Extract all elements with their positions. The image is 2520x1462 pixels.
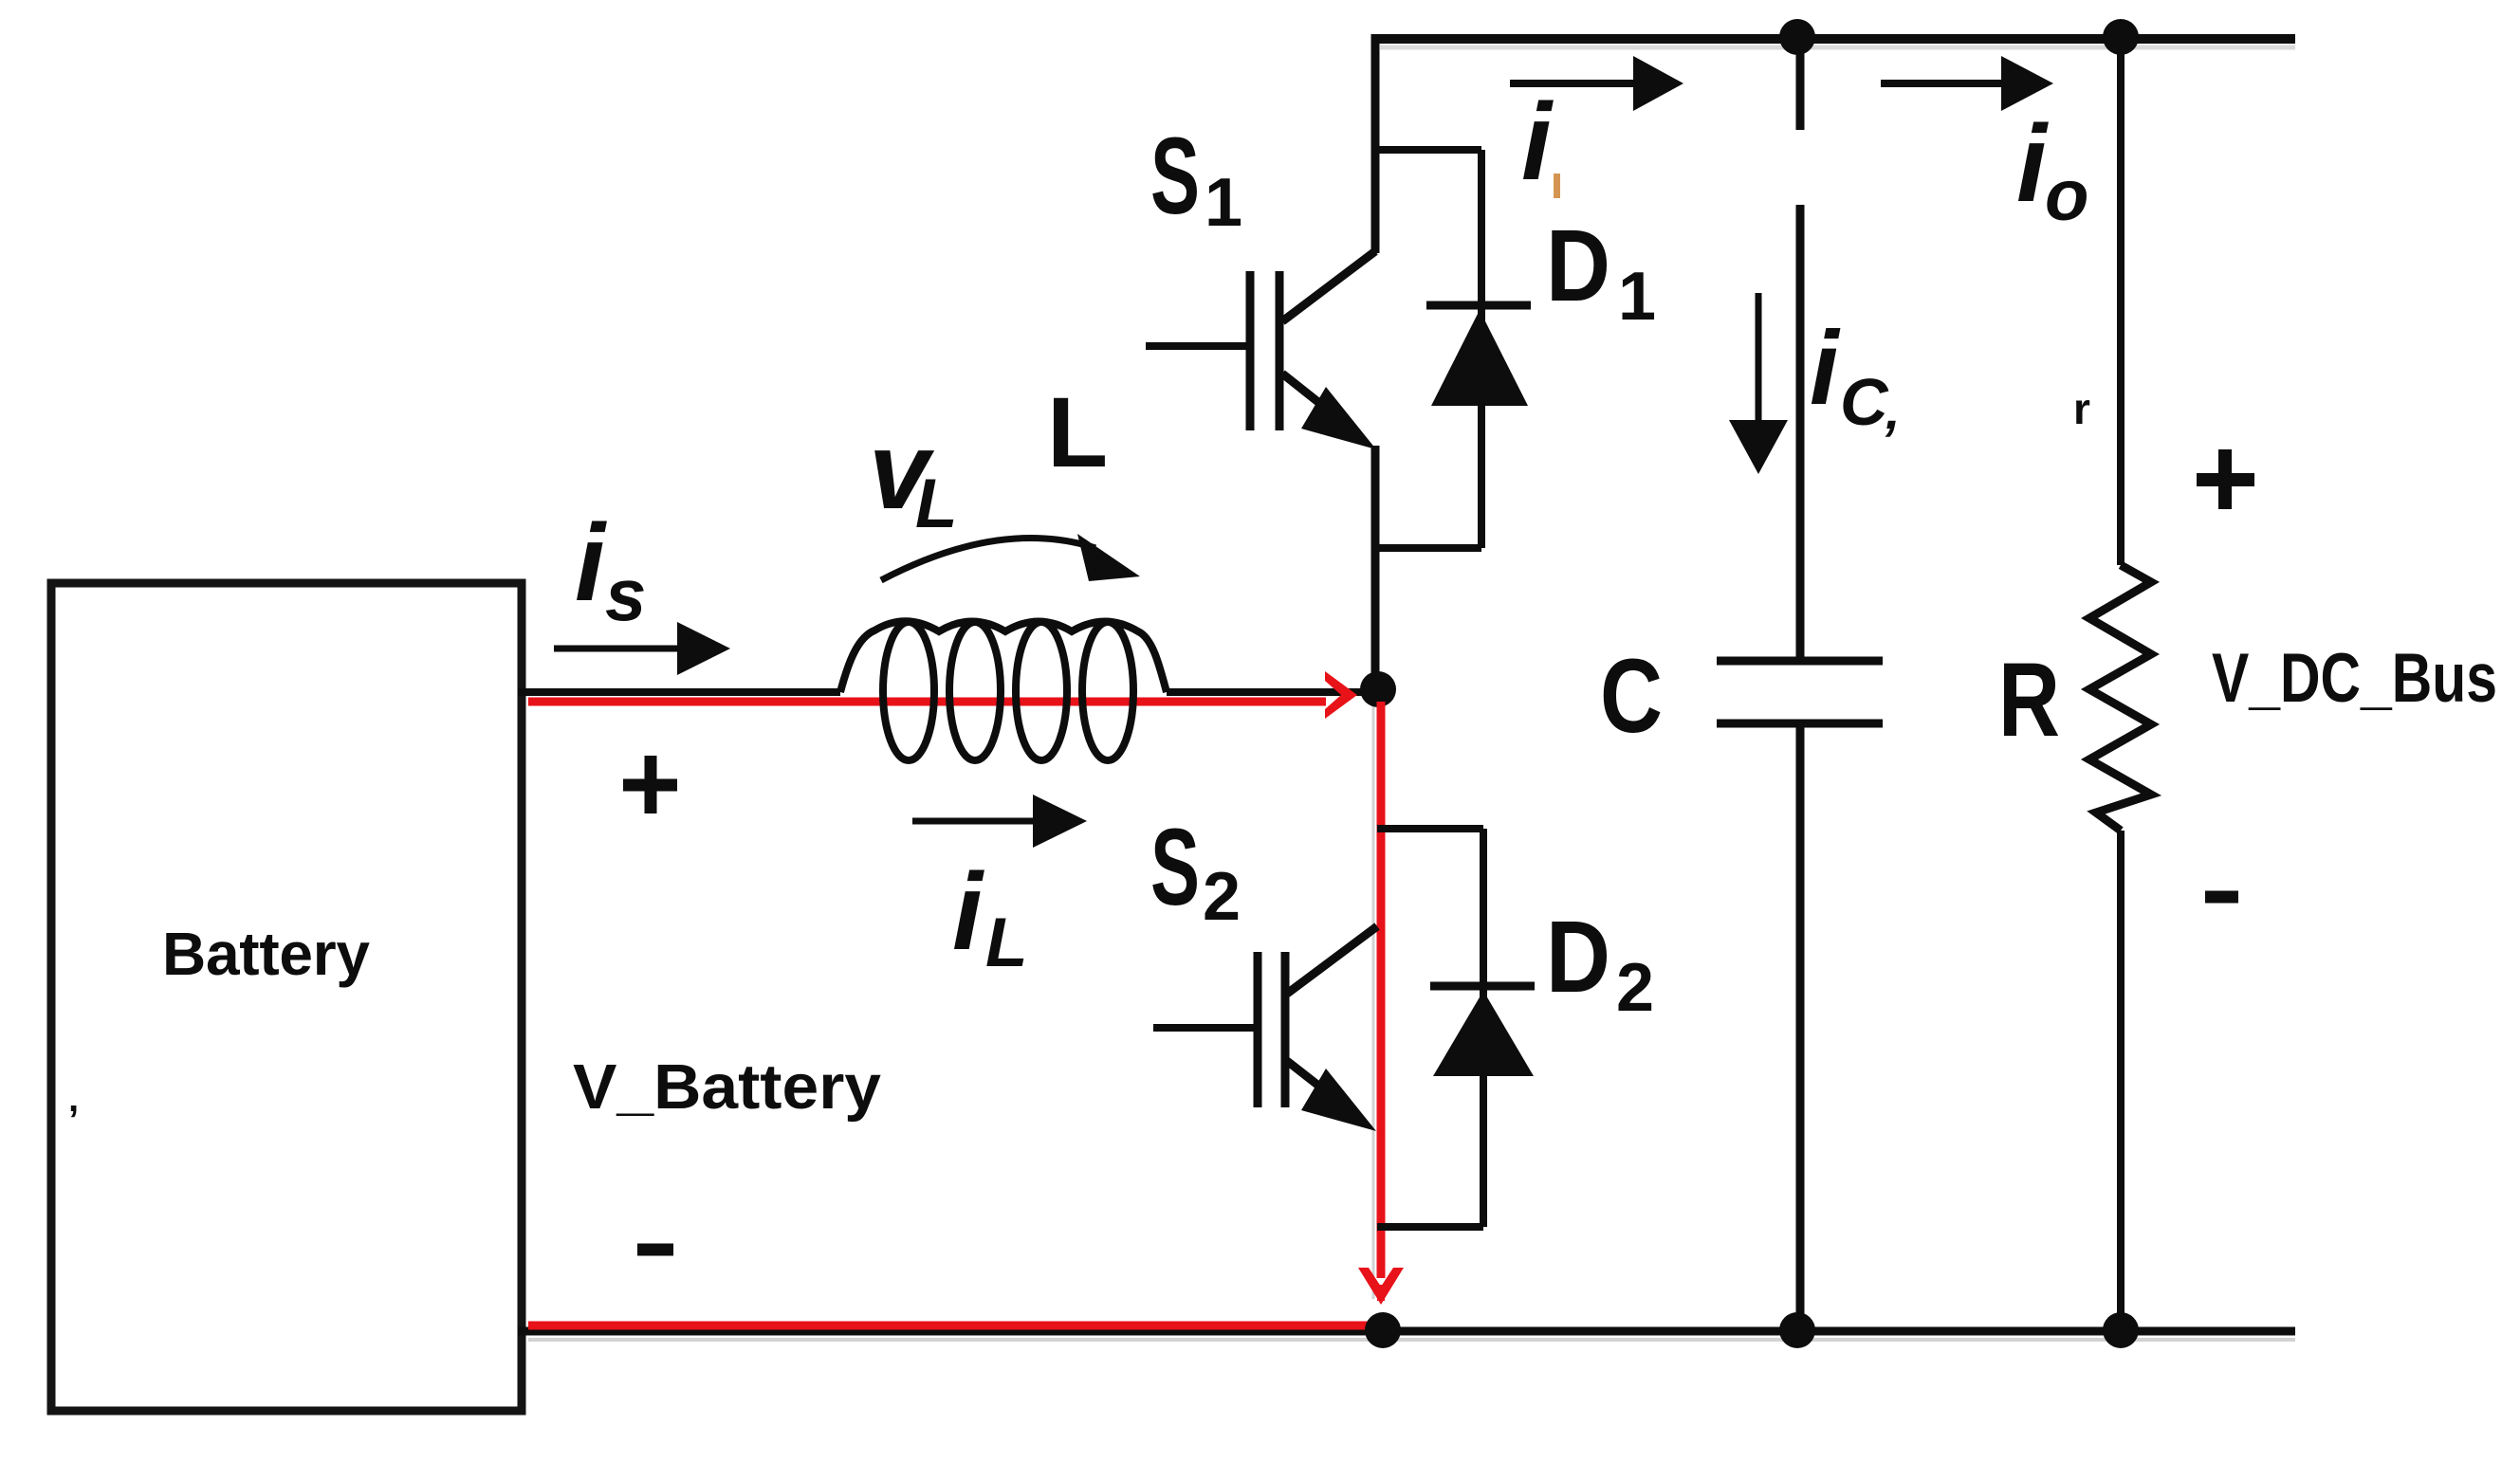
svg-text:L: L <box>985 905 1028 981</box>
svg-text:2: 2 <box>1616 950 1654 1026</box>
svg-text:1: 1 <box>1205 165 1242 241</box>
svg-text:S: S <box>1150 116 1200 237</box>
svg-text:L: L <box>1047 377 1108 488</box>
svg-text:i: i <box>2016 103 2049 225</box>
svg-text:r: r <box>2073 384 2090 433</box>
svg-text:C: C <box>1600 638 1663 755</box>
svg-text:S: S <box>1150 807 1200 928</box>
svg-text:,: , <box>68 1078 79 1120</box>
svg-text:V_Battery: V_Battery <box>573 1051 881 1123</box>
svg-text:i: i <box>1521 82 1554 203</box>
svg-text:,: , <box>1885 380 1901 440</box>
svg-text:D: D <box>1546 899 1610 1014</box>
svg-text:Battery: Battery <box>162 920 370 988</box>
svg-text:L: L <box>915 466 958 542</box>
svg-text:V_DC_Bus: V_DC_Bus <box>2212 640 2497 717</box>
svg-text:R: R <box>1998 642 2060 758</box>
svg-text:D: D <box>1546 208 1610 322</box>
svg-text:1: 1 <box>1618 259 1656 335</box>
svg-text:i: i <box>575 503 607 624</box>
svg-text:2: 2 <box>1203 859 1241 935</box>
svg-text:C: C <box>1840 365 1889 439</box>
svg-text:s: s <box>605 553 646 636</box>
svg-text:i: i <box>1810 310 1841 427</box>
svg-text:i: i <box>952 851 984 973</box>
svg-text:o: o <box>2045 155 2088 236</box>
